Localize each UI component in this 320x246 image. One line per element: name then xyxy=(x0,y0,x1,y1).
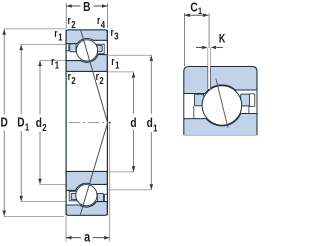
cage square left (bottom half) xyxy=(71,193,76,199)
cage pocket edge below left square xyxy=(193,106,195,119)
d1 extension lines xyxy=(104,54,152,56)
outer ring top section xyxy=(66,30,107,44)
K arrows xyxy=(196,46,202,48)
svg-text:r4: r4 xyxy=(97,15,105,30)
svg-text:D1: D1 xyxy=(17,116,29,133)
svg-text:r2: r2 xyxy=(68,15,76,30)
contact angle line xyxy=(80,30,107,215)
outer ring step lines (bottom right) xyxy=(105,194,108,201)
svg-text:a: a xyxy=(84,229,91,245)
cage bar right (bottom half) xyxy=(97,193,103,201)
d1 dimension line xyxy=(150,56,152,114)
d dimension line xyxy=(133,72,135,113)
cage square left (right figure) xyxy=(195,94,204,106)
svg-text:r1: r1 xyxy=(51,56,59,71)
svg-text:r1: r1 xyxy=(54,28,62,43)
contact line (right figure) xyxy=(216,79,228,128)
inner ring top section xyxy=(66,55,107,72)
pressure center dot xyxy=(109,122,111,124)
svg-text:d1: d1 xyxy=(147,116,158,134)
bearing cross-section, left figure xyxy=(66,30,111,216)
cage square right (top half) xyxy=(97,45,102,51)
ball bottom xyxy=(76,185,97,206)
C1 dimension line xyxy=(184,14,208,16)
face line segments (right figure) xyxy=(183,92,185,120)
svg-text:d: d xyxy=(130,116,136,130)
cage square right (right figure) xyxy=(241,94,250,106)
cage pocket right (right figure) xyxy=(249,94,254,106)
d extension lines xyxy=(108,71,134,73)
K hole center line above xyxy=(208,13,210,48)
svg-text:C1: C1 xyxy=(190,1,202,17)
d2 dimension line xyxy=(39,61,41,114)
svg-text:K: K xyxy=(219,34,226,46)
inner ring (right figure) xyxy=(184,114,257,136)
slot edge upper xyxy=(209,48,211,66)
right figure: section with lubrication hole xyxy=(184,48,257,135)
outer ring step lines (top left) xyxy=(66,44,69,51)
B dimension line xyxy=(66,5,80,7)
D dimension line xyxy=(3,29,5,114)
D extension lines xyxy=(4,28,66,30)
a extension lines xyxy=(65,216,67,242)
outer ring bottom section xyxy=(66,202,107,216)
cage bar left (top half) xyxy=(70,44,76,52)
D1 extension lines xyxy=(21,43,66,45)
d2 extension lines xyxy=(39,59,65,61)
svg-text:r2: r2 xyxy=(68,71,76,86)
ball (right figure) xyxy=(202,86,242,126)
svg-text:d2: d2 xyxy=(36,116,47,133)
svg-text:B: B xyxy=(83,0,90,14)
dimension furniture xyxy=(2,3,222,242)
ball top xyxy=(76,40,97,61)
C1 extension line xyxy=(183,13,185,66)
cage pocket left (bottom half) xyxy=(69,191,77,200)
left face line xyxy=(65,30,67,216)
a dimension line xyxy=(66,237,81,239)
lubrication hole K through outer ring xyxy=(208,66,211,89)
svg-text:D: D xyxy=(1,116,8,130)
B extension lines xyxy=(65,3,67,28)
cage pocket edge below right square xyxy=(248,106,250,114)
right face line xyxy=(106,30,108,216)
cage pocket right (top half) xyxy=(96,44,104,53)
D1 dimension line xyxy=(20,45,22,114)
outer ring (right figure) xyxy=(184,67,257,94)
svg-text:r1: r1 xyxy=(111,56,119,71)
inner ring bottom section xyxy=(66,171,107,190)
inner ring bore edge (faint) xyxy=(184,134,257,136)
centerline (axis) xyxy=(69,122,108,124)
svg-text:r3: r3 xyxy=(111,27,119,42)
